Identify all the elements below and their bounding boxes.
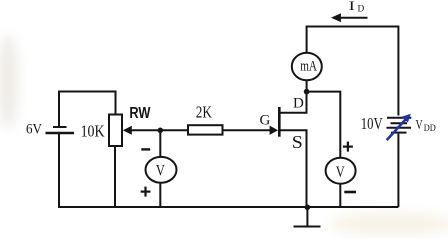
- wire bottom rail (ground net): [58, 206, 398, 208]
- source VDD short plate 2: [391, 132, 407, 134]
- ID arrow shaft: [339, 17, 368, 19]
- JFET Q1 channel bar: [278, 107, 281, 137]
- svg-text:V: V: [336, 164, 345, 181]
- node junction dot ground: [305, 205, 311, 211]
- VDD variable arrow (blue): [387, 114, 411, 140]
- ground bar: [294, 226, 321, 228]
- wire wiper to gate resistor: [129, 129, 188, 131]
- wire left loop top (battery+ to pot top): [59, 92, 116, 127]
- svg-text:mA: mA: [300, 58, 317, 74]
- voltmeter V2 body: [326, 158, 356, 184]
- svg-text:2K: 2K: [196, 103, 212, 122]
- voltmeter V1 body: [146, 157, 177, 183]
- svg-text:D: D: [293, 96, 304, 112]
- wire right vertical lower (VDD- to bottom rail): [397, 134, 399, 207]
- source VDD short plate 1: [391, 122, 408, 124]
- svg-text:S: S: [292, 132, 303, 152]
- JFET Q1 source lead: [281, 130, 307, 207]
- svg-text:RW: RW: [129, 105, 151, 122]
- polarity minus of V2: [344, 191, 356, 194]
- resistor 2K body: [188, 125, 223, 134]
- wire drain node to V2: [307, 92, 341, 158]
- svg-text:V: V: [416, 117, 423, 132]
- svg-text:10K: 10K: [81, 122, 106, 141]
- wire mA top to VDD top rail: [307, 27, 399, 116]
- wire pot bottom lead: [114, 146, 116, 207]
- JFET Q1 drain lead: [281, 92, 307, 113]
- wire V2 bottom lead: [339, 184, 341, 207]
- battery B 6V long plate (bottom, positive): [46, 132, 75, 135]
- polarity plus of V2: [343, 142, 353, 152]
- polarity minus of V1: [141, 148, 150, 150]
- wire V1 top lead: [159, 130, 161, 157]
- milliammeter mA body: [292, 53, 322, 81]
- JFET Q1 gate arrow: [270, 126, 278, 135]
- svg-text:10V: 10V: [361, 114, 383, 133]
- svg-text:I: I: [349, 0, 355, 13]
- potentiometer RW body 10K: [109, 115, 122, 147]
- wire V1 bottom lead: [159, 182, 161, 207]
- ground stem: [306, 207, 308, 226]
- node junction dot wiper: [158, 128, 164, 134]
- node junction dot drain: [304, 89, 310, 95]
- source VDD long plate 2: [387, 127, 412, 129]
- potentiometer RW wiper arrow: [123, 126, 132, 135]
- source VDD long plate 1: [387, 117, 411, 119]
- svg-text:G: G: [260, 112, 271, 128]
- wire mA bottom lead: [306, 81, 308, 92]
- ID arrow head: [331, 13, 341, 22]
- wire resistor to gate: [223, 129, 271, 131]
- svg-text:DD: DD: [424, 123, 436, 133]
- polarity plus of V1: [141, 187, 151, 197]
- wire left vertical lower (battery- to bottom rail): [58, 133, 60, 207]
- svg-text:6V: 6V: [26, 122, 42, 138]
- svg-text:V: V: [156, 162, 165, 179]
- battery B 6V short plate (top, negative): [53, 126, 67, 128]
- svg-text:D: D: [358, 5, 365, 15]
